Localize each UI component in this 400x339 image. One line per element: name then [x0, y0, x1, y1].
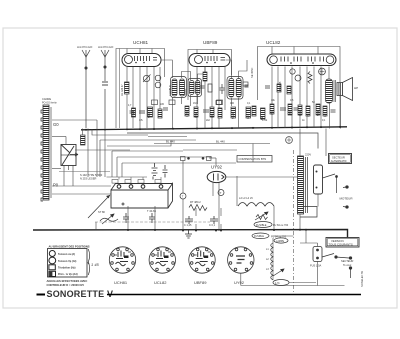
- svg-text:UBF89: UBF89: [203, 40, 218, 45]
- svg-text:T: T: [182, 195, 184, 199]
- resistor cluster under UCL82: [231, 68, 325, 119]
- volume pot: [100, 214, 118, 224]
- dial cord lower: [95, 221, 210, 223]
- VERSION TOUS COURANTS box: [326, 238, 359, 248]
- svg-text:Tension Vp (At): Tension Vp (At): [58, 260, 76, 263]
- svg-text:1 45: 1 45: [91, 262, 100, 267]
- svg-text:220k: 220k: [196, 112, 198, 118]
- svg-text:MOTEUR: MOTEUR: [340, 197, 354, 201]
- transformer bottom box: [300, 207, 317, 218]
- socket UY92: [228, 247, 254, 273]
- IF transformer 1 can + windings: [171, 77, 187, 98]
- small boxed labels row: [152, 82, 249, 105]
- IF2 connecting wires: [226, 60, 248, 128]
- pot with arrow mid: [255, 212, 268, 220]
- svg-text:COMPENSATION BTN: COMPENSATION BTN: [239, 157, 267, 161]
- svg-text:RT 480-2: RT 480-2: [190, 200, 201, 204]
- tiny boxed labels on gang: [112, 180, 161, 184]
- wire main B+ bus: [81, 127, 347, 130]
- socket UCH81: [109, 247, 135, 273]
- dropper coil: [266, 243, 273, 280]
- svg-text:CHOBLD: CHOBLD: [168, 85, 172, 96]
- resistor cluster under UCH81: [125, 75, 163, 119]
- junction dots: [85, 126, 341, 232]
- svg-text:FUS 1,5A: FUS 1,5A: [310, 264, 322, 268]
- socket UCL82: [149, 247, 175, 273]
- mid vertical wires to ground bus: [96, 144, 274, 231]
- svg-text:4,7k: 4,7k: [275, 282, 280, 285]
- svg-text:SECTEUR: SECTEUR: [341, 259, 354, 263]
- wire ground bus: [33, 230, 348, 239]
- nested routing wires: [92, 129, 236, 177]
- second element: [163, 165, 168, 178]
- tube UCH81: [122, 54, 161, 67]
- below-bus fuse: [252, 233, 269, 239]
- svg-text:Ant PO-GO: Ant PO-GO: [98, 45, 114, 49]
- svg-text:S 192 TYPE 57000: S 192 TYPE 57000: [80, 173, 103, 177]
- wires bottom right: [241, 236, 345, 286]
- svg-text:SE 455C: SE 455C: [250, 67, 254, 78]
- right vertical wires: [300, 95, 341, 230]
- dial pointer arrow: [88, 195, 110, 218]
- svg-text:C 0,1: C 0,1: [209, 224, 216, 227]
- svg-text:Tension ca (A): Tension ca (A): [58, 253, 75, 256]
- bottom pot oval: [273, 269, 284, 276]
- svg-text:FUSIBLE: FUSIBLE: [256, 224, 267, 227]
- svg-text:FUSIBLE: FUSIBLE: [254, 235, 264, 238]
- antenna 2 (right): [101, 50, 109, 128]
- power transformer: [298, 156, 308, 214]
- svg-text:CTN 455: CTN 455: [278, 81, 282, 92]
- svg-text:UCL82: UCL82: [154, 280, 167, 285]
- svg-text:AU BRASSENT DES POSITIONS: AU BRASSENT DES POSITIONS: [49, 244, 90, 248]
- svg-text:UCH81: UCH81: [114, 280, 128, 285]
- oscillator coil box with X: [61, 145, 78, 171]
- caps near pot: [123, 213, 155, 223]
- switch to motor: [323, 174, 349, 208]
- svg-text:100: 100: [230, 102, 235, 105]
- svg-text:2k2: 2k2: [206, 119, 211, 122]
- svg-text:C 1,25: C 1,25: [184, 224, 192, 227]
- svg-text:470k: 470k: [248, 113, 250, 119]
- UY92 tube (ellipse): [207, 171, 226, 182]
- mid horizontal wires: [75, 137, 298, 232]
- fusible oval: [254, 222, 272, 228]
- shield box: [314, 165, 323, 194]
- left connecting wires: [52, 120, 147, 194]
- socket UBF89: [189, 247, 215, 273]
- speaker HP: [337, 78, 353, 101]
- svg-text:BL 440: BL 440: [166, 140, 175, 144]
- svg-text:L2 L3 L4 L5: L2 L3 L4 L5: [239, 196, 253, 200]
- svg-text:G0: G0: [53, 122, 59, 127]
- svg-text:UL GM 47: UL GM 47: [120, 84, 124, 96]
- wires under UBF89: [197, 67, 225, 129]
- svg-text:ALTERNATIF: ALTERNATIF: [331, 159, 347, 163]
- UCL82 stage box: [258, 47, 341, 101]
- svg-text:50kpF: 50kpF: [149, 111, 151, 118]
- B+ sub rail right: [127, 133, 318, 149]
- wires from switch up: [300, 243, 318, 247]
- svg-text:50kpF: 50kpF: [233, 112, 235, 119]
- dash separator: [293, 150, 295, 292]
- tuning gang 3D box: [111, 184, 173, 209]
- svg-text:5nF: 5nF: [262, 115, 264, 120]
- svg-text:N 253 LEGER: N 253 LEGER: [80, 177, 97, 181]
- COMPENSATION box: [237, 156, 272, 163]
- IF transformer 2 can + windings: [227, 77, 249, 100]
- svg-text:UBF89: UBF89: [194, 280, 207, 285]
- svg-text:Ant PO-GO: Ant PO-GO: [77, 45, 93, 49]
- pill top stubs: [127, 47, 318, 55]
- wires tube pins down (UCH81 area): [127, 67, 160, 128]
- svg-text:50MF: 50MF: [318, 110, 320, 116]
- vertical value labels (tiny): [120, 67, 282, 96]
- svg-text:220V: 220V: [305, 153, 311, 157]
- svg-text:ST 80: ST 80: [98, 210, 105, 214]
- svg-text:Prim - ts Vp (Ad): Prim - ts Vp (Ad): [58, 273, 78, 276]
- resistor cluster under UBF89: [194, 72, 222, 118]
- wires under UCL82: [272, 67, 340, 129]
- svg-text:Triode/ton (Hz): Triode/ton (Hz): [58, 267, 76, 270]
- svg-text:220: 220: [160, 103, 165, 106]
- svg-text:0,2MF: 0,2MF: [300, 109, 302, 116]
- battery / L element: [152, 163, 158, 180]
- secteur terminals: [336, 257, 352, 278]
- boxed pin markers mid: [181, 157, 212, 161]
- svg-text:HP: HP: [354, 86, 358, 90]
- svg-text:T: T: [220, 191, 222, 195]
- svg-text:0,1MF: 0,1MF: [187, 110, 189, 117]
- svg-text:BL 440: BL 440: [216, 140, 225, 144]
- antenna AM PO-GO (left): [82, 50, 90, 128]
- svg-text:SONELEC 59: SONELEC 59: [360, 270, 364, 287]
- bottom caps mid: [185, 216, 218, 224]
- svg-text:SECTEUR: SECTEUR: [332, 156, 345, 160]
- svg-text:UY92: UY92: [234, 280, 245, 285]
- IF1 connecting wires: [161, 60, 205, 129]
- dial cord: [59, 171, 110, 173]
- svg-text:UCL82: UCL82: [266, 40, 281, 45]
- svg-text:8MF: 8MF: [290, 110, 292, 115]
- small part above osc box: [81, 135, 86, 145]
- svg-text:PO-GO ferrite: PO-GO ferrite: [42, 102, 57, 105]
- svg-text:Ts cour.: Ts cour.: [343, 263, 352, 267]
- UCH81 stage box: [116, 49, 165, 129]
- svg-text:AIGUILLES EFFECTUEES AVEC: AIGUILLES EFFECTUEES AVEC: [47, 279, 88, 283]
- svg-text:LAMPE: LAMPE: [276, 240, 285, 243]
- svg-text:TOUS COURANTS: TOUS COURANTS: [329, 243, 353, 247]
- filament dropper resistor: [189, 205, 207, 211]
- svg-text:CONTROLEUR D = 20000 O/V: CONTROLEUR D = 20000 O/V: [47, 283, 85, 287]
- tube UBF89: [189, 54, 230, 67]
- svg-text:UCH81: UCH81: [133, 40, 149, 45]
- svg-text:UY92: UY92: [211, 165, 223, 170]
- SECTEUR ALTERNATIF box: [329, 154, 352, 164]
- tiny value labels scattered: [128, 99, 326, 122]
- svg-text:39050: 39050: [184, 88, 188, 96]
- svg-text:CADRE: CADRE: [42, 97, 51, 101]
- IF1 second can: [188, 79, 202, 97]
- svg-text:SONORETTE V: SONORETTE V: [47, 289, 114, 299]
- svg-text:1M: 1M: [193, 102, 196, 105]
- tube UCL82: [267, 54, 336, 66]
- svg-text:FU 84 ou 700: FU 84 ou 700: [273, 224, 289, 227]
- output transformer: [326, 79, 336, 103]
- extra small parts band under tubes: [130, 84, 336, 116]
- svg-text:P0: P0: [53, 183, 59, 188]
- fuse switch box: [313, 247, 337, 262]
- svg-text:25kpF: 25kpF: [133, 110, 135, 117]
- svg-text:1MF: 1MF: [272, 110, 274, 115]
- ferrite rod / coil left: [41, 105, 51, 201]
- inductor chain L2-L5: [238, 203, 274, 207]
- ground symbol: [185, 231, 192, 239]
